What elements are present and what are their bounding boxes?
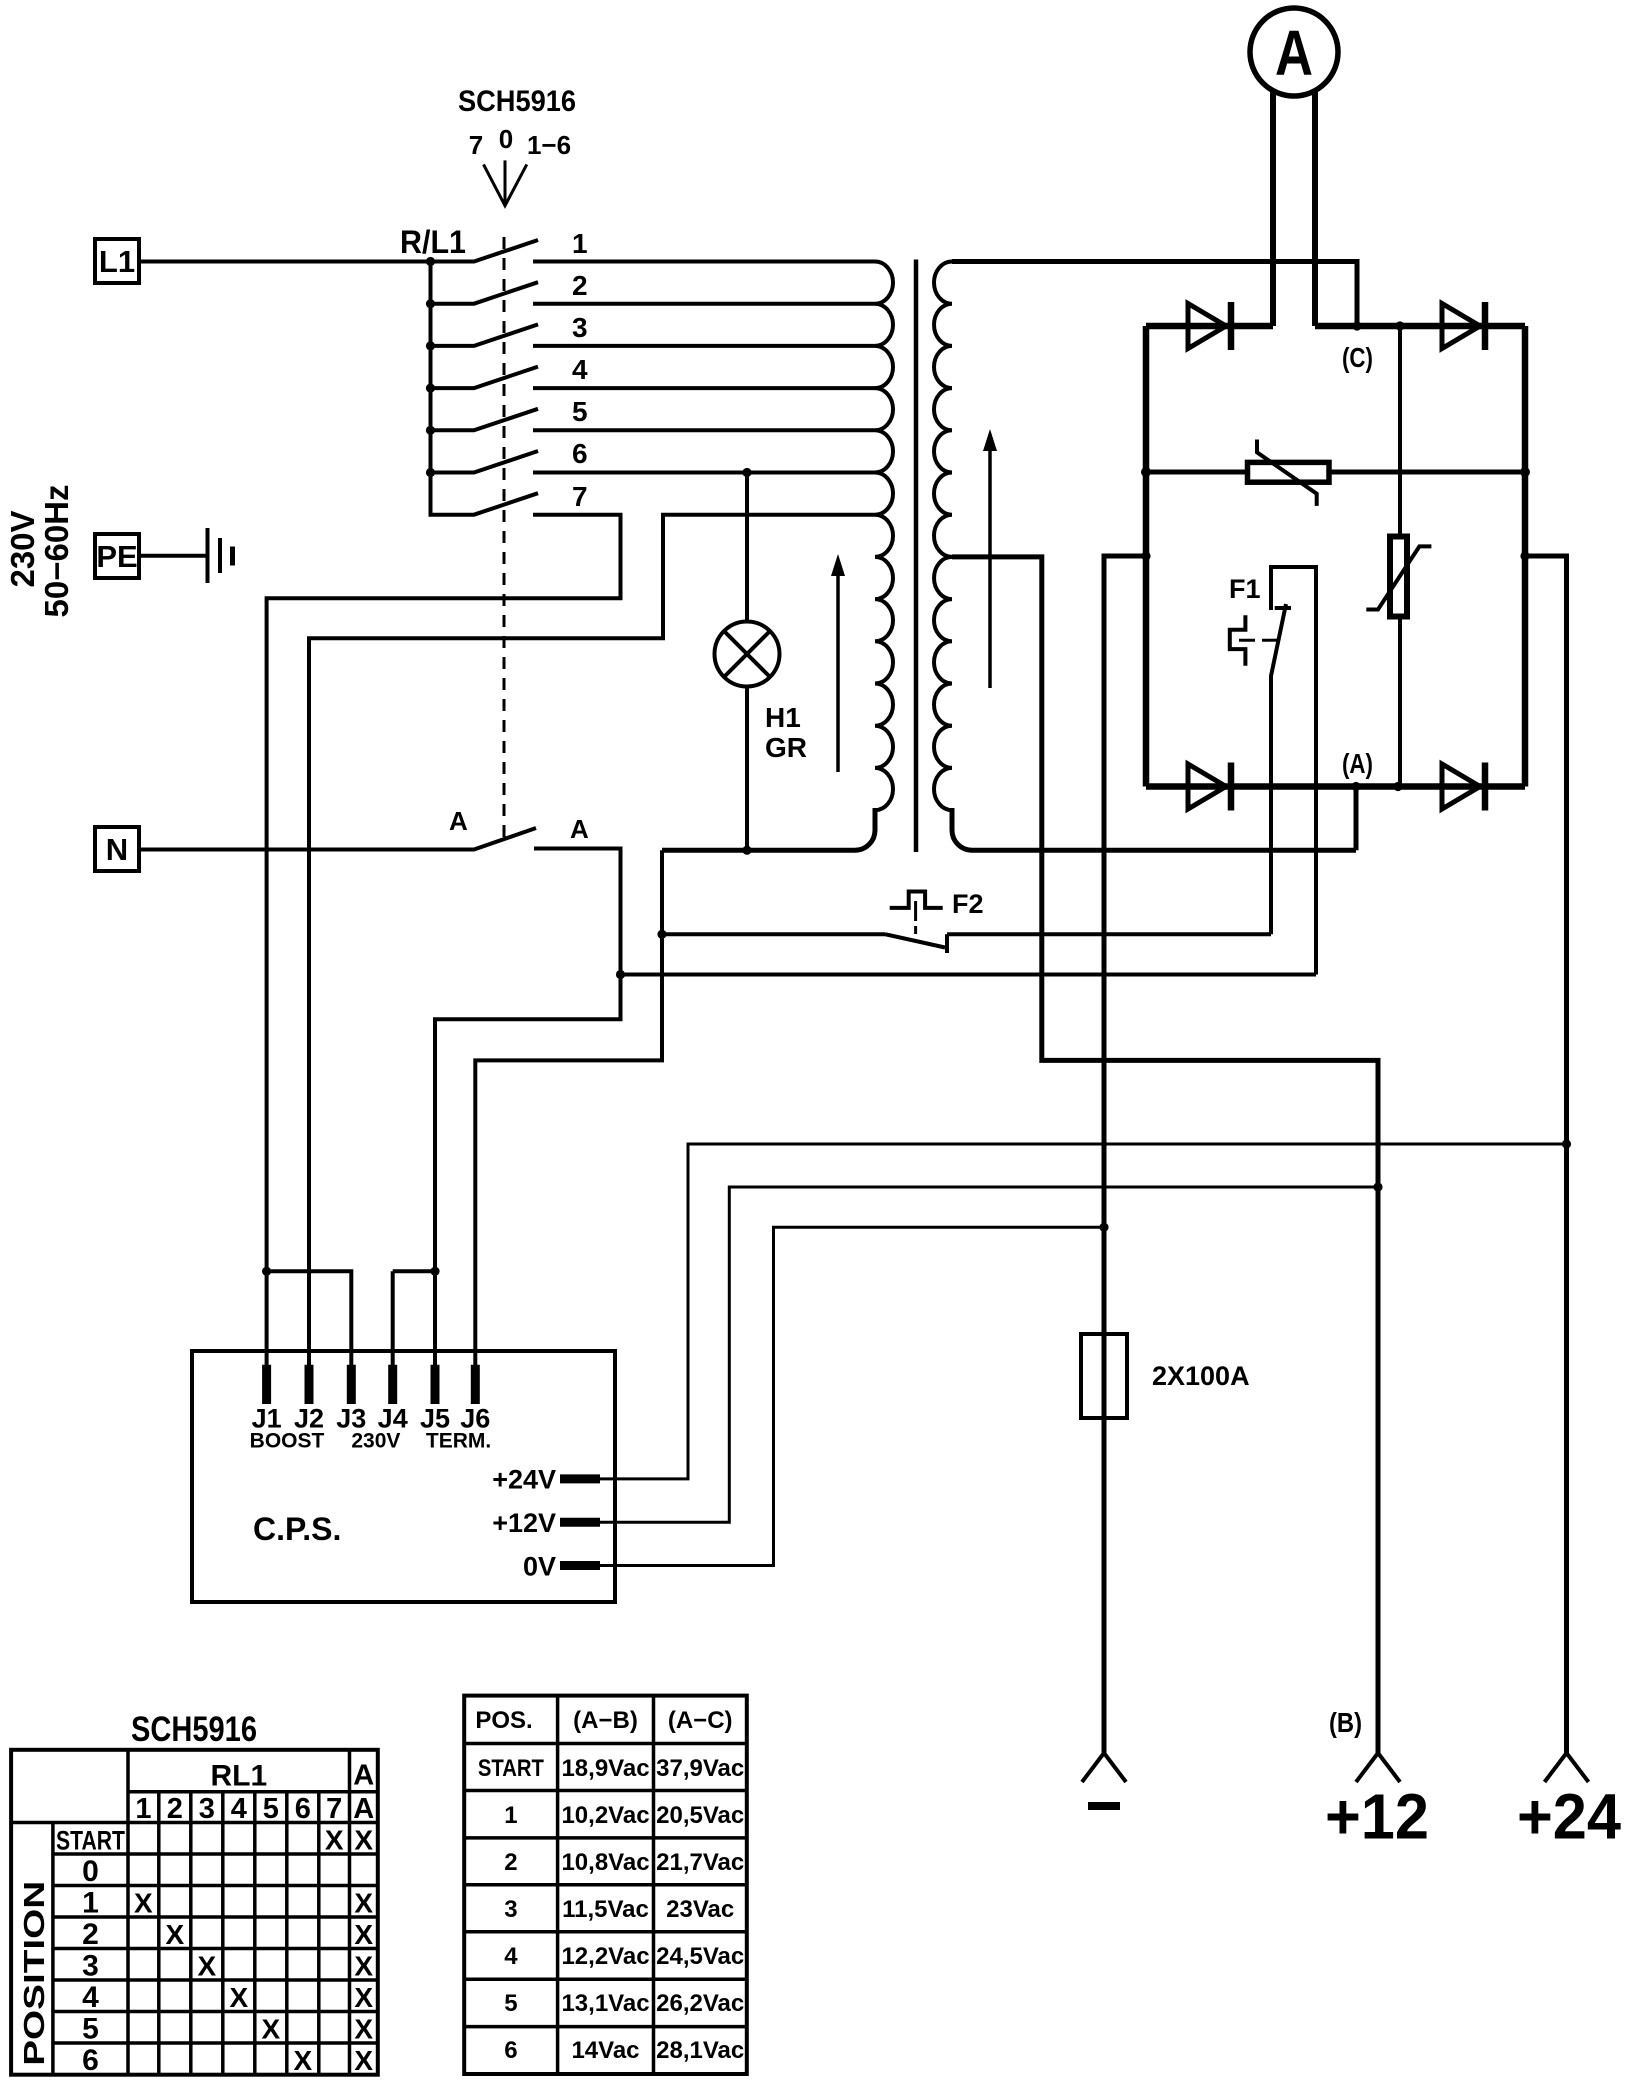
svg-text:A: A xyxy=(353,1759,374,1791)
svg-text:6: 6 xyxy=(504,2037,517,2064)
svg-text:0: 0 xyxy=(82,1855,99,1888)
svg-text:X: X xyxy=(229,1982,248,2013)
svg-text:X: X xyxy=(261,2014,280,2045)
svg-text:(C): (C) xyxy=(1342,342,1373,373)
svg-text:28,1Vac: 28,1Vac xyxy=(656,2037,744,2064)
svg-text:X: X xyxy=(354,1951,373,1982)
svg-text:RL1: RL1 xyxy=(210,1760,267,1793)
svg-text:X: X xyxy=(325,1825,344,1856)
svg-text:1: 1 xyxy=(82,1887,99,1920)
svg-text:7: 7 xyxy=(469,130,483,160)
svg-text:START: START xyxy=(478,1755,544,1782)
svg-text:2: 2 xyxy=(572,270,588,301)
svg-text:X: X xyxy=(354,1982,373,2013)
svg-text:10,8Vac: 10,8Vac xyxy=(561,1849,649,1876)
svg-text:(A): (A) xyxy=(1342,748,1373,779)
svg-text:14Vac: 14Vac xyxy=(571,2037,639,2064)
svg-text:4: 4 xyxy=(231,1793,247,1825)
svg-text:X: X xyxy=(354,1825,373,1856)
svg-text:5: 5 xyxy=(82,2013,99,2046)
svg-text:12,2Vac: 12,2Vac xyxy=(561,1943,649,1970)
svg-text:BOOST: BOOST xyxy=(250,1429,325,1452)
svg-text:230V: 230V xyxy=(351,1429,400,1452)
svg-text:3: 3 xyxy=(504,1896,517,1923)
svg-text:TERM.: TERM. xyxy=(426,1429,491,1452)
svg-text:X: X xyxy=(134,1888,153,1919)
svg-text:11,5Vac: 11,5Vac xyxy=(562,1896,649,1923)
svg-text:X: X xyxy=(293,2045,312,2076)
svg-text:6: 6 xyxy=(295,1793,311,1825)
svg-text:7: 7 xyxy=(572,481,588,512)
svg-text:X: X xyxy=(197,1951,216,1982)
svg-text:F2: F2 xyxy=(952,889,984,919)
svg-text:L1: L1 xyxy=(99,244,135,279)
svg-text:3: 3 xyxy=(572,312,588,343)
svg-text:F1: F1 xyxy=(1229,574,1261,604)
svg-text:PE: PE xyxy=(96,539,137,574)
svg-text:R/L1: R/L1 xyxy=(400,224,466,260)
svg-text:13,1Vac: 13,1Vac xyxy=(561,1990,649,2017)
svg-text:1: 1 xyxy=(135,1793,151,1825)
svg-text:X: X xyxy=(165,1919,184,1950)
svg-text:2: 2 xyxy=(504,1849,517,1876)
svg-text:H1: H1 xyxy=(765,702,801,733)
svg-text:1−6: 1−6 xyxy=(527,130,571,160)
svg-text:1: 1 xyxy=(504,1802,517,1829)
svg-text:2: 2 xyxy=(167,1793,183,1825)
svg-text:+24V: +24V xyxy=(492,1465,556,1495)
svg-text:1: 1 xyxy=(572,228,588,259)
svg-text:X: X xyxy=(354,1888,373,1919)
svg-text:+12: +12 xyxy=(1325,1781,1429,1853)
svg-text:(A−C): (A−C) xyxy=(668,1707,733,1734)
svg-text:20,5Vac: 20,5Vac xyxy=(656,1802,744,1829)
svg-text:A: A xyxy=(353,1793,374,1825)
svg-text:24,5Vac: 24,5Vac xyxy=(656,1943,744,1970)
svg-text:5: 5 xyxy=(504,1990,517,2017)
svg-text:START: START xyxy=(56,1826,125,1856)
svg-text:(B): (B) xyxy=(1329,1707,1362,1738)
svg-text:X: X xyxy=(354,2014,373,2045)
svg-text:C.P.S.: C.P.S. xyxy=(253,1511,341,1547)
svg-text:0: 0 xyxy=(499,124,513,154)
svg-text:2: 2 xyxy=(82,1918,99,1951)
svg-text:2X100A: 2X100A xyxy=(1152,1361,1250,1391)
svg-text:6: 6 xyxy=(82,2044,99,2077)
svg-text:6: 6 xyxy=(572,438,588,469)
svg-text:26,2Vac: 26,2Vac xyxy=(656,1990,744,2017)
svg-text:SCH5916: SCH5916 xyxy=(131,1710,257,1749)
svg-text:10,2Vac: 10,2Vac xyxy=(561,1802,649,1829)
svg-text:GR: GR xyxy=(765,732,807,763)
svg-text:230V: 230V xyxy=(4,510,41,587)
svg-text:N: N xyxy=(106,832,128,867)
svg-text:50−60Hz: 50−60Hz xyxy=(38,484,75,617)
svg-text:A: A xyxy=(449,806,468,836)
svg-text:18,9Vac: 18,9Vac xyxy=(561,1755,649,1782)
svg-text:A: A xyxy=(570,814,589,844)
svg-text:SCH5916: SCH5916 xyxy=(458,85,576,118)
svg-text:4: 4 xyxy=(82,1981,99,2014)
svg-text:3: 3 xyxy=(82,1950,99,1983)
svg-text:0V: 0V xyxy=(523,1551,556,1581)
svg-text:POSITION: POSITION xyxy=(19,1881,51,2066)
svg-text:X: X xyxy=(354,2045,373,2076)
svg-text:4: 4 xyxy=(572,354,588,385)
svg-text:A: A xyxy=(1275,17,1313,89)
svg-text:(A−B): (A−B) xyxy=(573,1707,638,1734)
svg-text:23Vac: 23Vac xyxy=(666,1896,734,1923)
svg-text:POS.: POS. xyxy=(475,1707,532,1734)
svg-text:37,9Vac: 37,9Vac xyxy=(656,1755,744,1782)
svg-text:X: X xyxy=(354,1919,373,1950)
svg-text:7: 7 xyxy=(326,1793,342,1825)
svg-text:+24: +24 xyxy=(1517,1781,1621,1853)
svg-text:5: 5 xyxy=(572,396,588,427)
svg-text:21,7Vac: 21,7Vac xyxy=(656,1849,744,1876)
svg-text:3: 3 xyxy=(199,1793,215,1825)
svg-text:+12V: +12V xyxy=(492,1508,556,1538)
svg-text:5: 5 xyxy=(263,1793,279,1825)
svg-text:4: 4 xyxy=(504,1943,518,1970)
